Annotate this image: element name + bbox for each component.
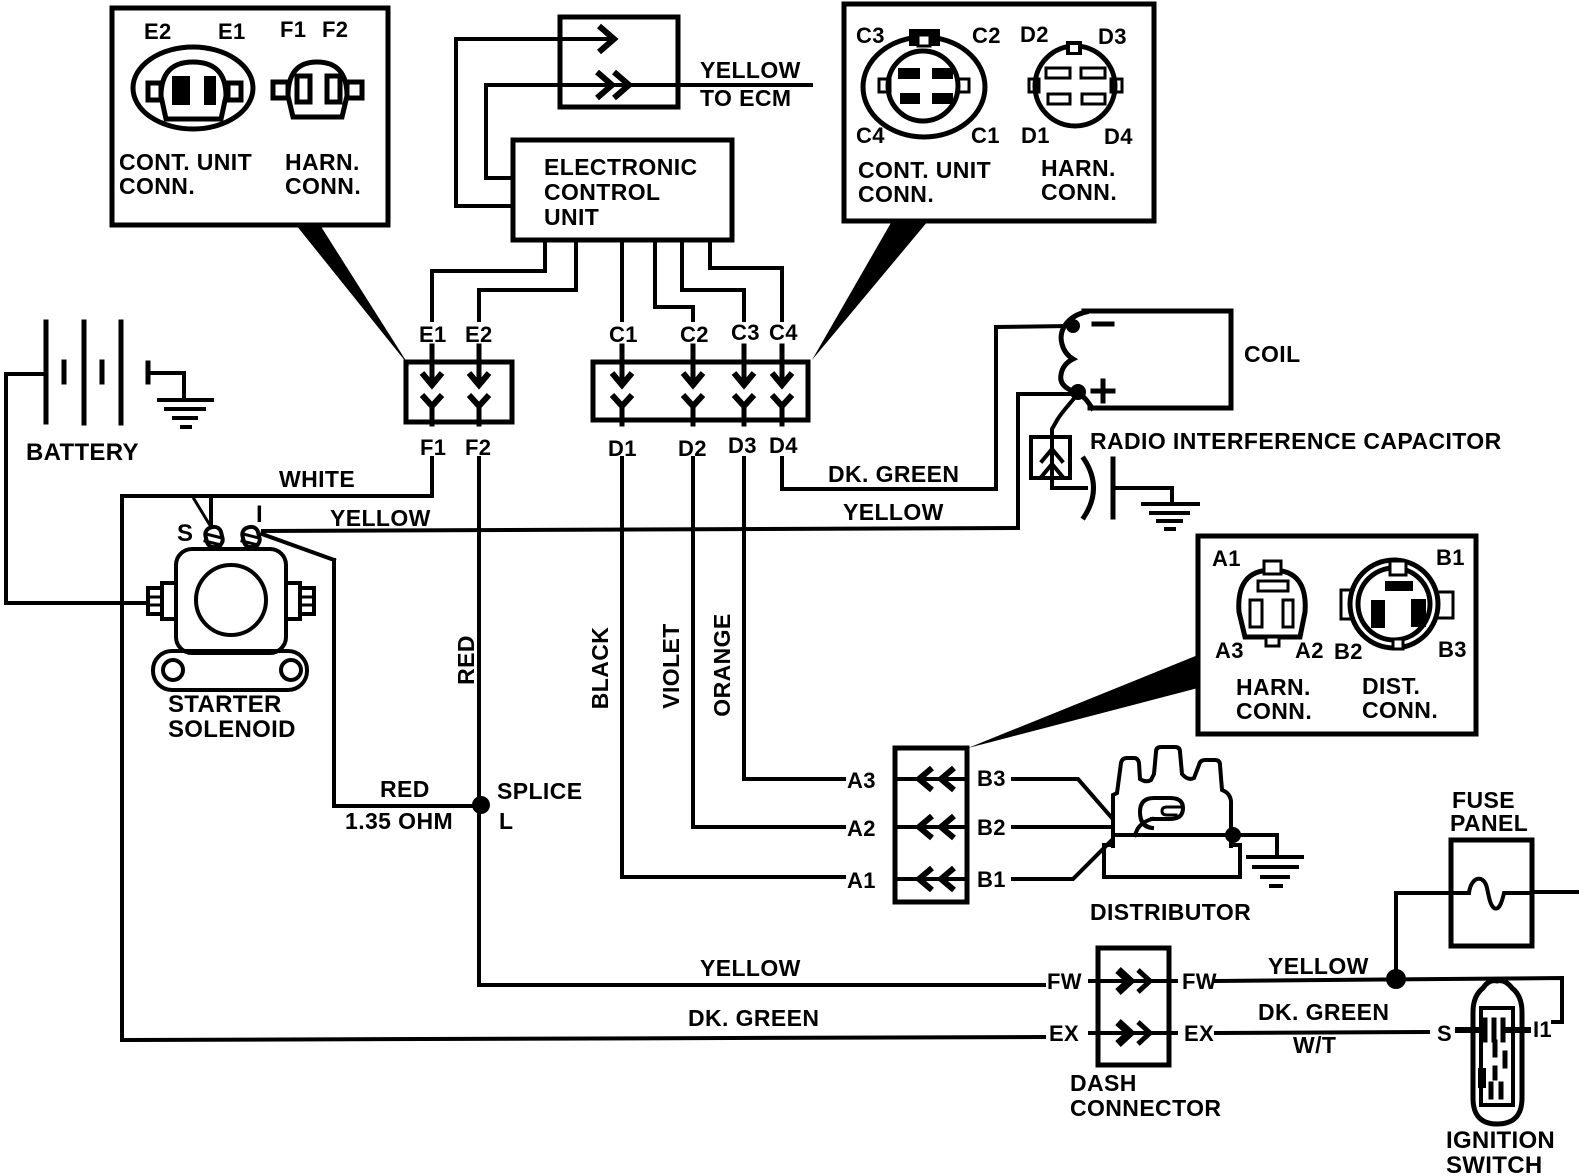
callout box: ECU C/D connector detail [844, 4, 1154, 221]
svg-text:EX: EX [1049, 1021, 1079, 1046]
FW pin arrows [1090, 970, 1176, 992]
dash connector [1070, 948, 1221, 1121]
wire: ECU pin to C4 [710, 240, 782, 320]
svg-text:YELLOW: YELLOW [330, 505, 431, 531]
svg-text:DK. GREEN: DK. GREEN [828, 461, 959, 487]
svg-text:DASH: DASH [1070, 1070, 1137, 1096]
svg-text:A2: A2 [1295, 638, 1324, 663]
svg-text:CONN.: CONN. [285, 173, 361, 199]
terminal S stud [204, 525, 224, 548]
ignition coil [1061, 311, 1301, 408]
cont. unit connector (C) symbol [863, 29, 985, 137]
svg-text:HARN.: HARN. [1236, 674, 1311, 700]
svg-text:F1: F1 [280, 17, 306, 42]
dist. connector (B) symbol [1341, 560, 1453, 649]
wire: battery positive to starter solenoid [6, 374, 146, 603]
pointer wedge from A/B callout to connector block [968, 655, 1198, 748]
svg-text:FW: FW [1047, 969, 1082, 994]
svg-text:TO ECM: TO ECM [700, 85, 791, 111]
wire: B1 to distributor [1013, 840, 1112, 879]
svg-text:DIST.: DIST. [1362, 673, 1420, 699]
ignition switch contacts [1458, 1020, 1528, 1040]
wire: ECM box to ECU (upper) [456, 39, 513, 206]
pointer wedge from E/F callout to connector block [296, 225, 410, 367]
harn. connector (D) symbol [1029, 41, 1122, 126]
svg-text:CONT. UNIT: CONT. UNIT [858, 157, 991, 183]
wire: DK. GREEN D4 to coil negative [782, 326, 1068, 489]
svg-text:PANEL: PANEL [1450, 810, 1528, 836]
wire: RED F2 down to splice and FW [479, 458, 1044, 985]
svg-text:CONN.: CONN. [858, 181, 934, 207]
svg-text:ORANGE: ORANGE [709, 613, 735, 716]
svg-text:SPLICE: SPLICE [497, 778, 582, 804]
wire: YELLOW FW to ignition switch I1 [1216, 978, 1562, 1022]
svg-text:YELLOW: YELLOW [700, 955, 801, 981]
svg-text:SOLENOID: SOLENOID [168, 716, 296, 743]
svg-text:EX: EX [1184, 1021, 1214, 1046]
C3-D3 pin arrow [734, 346, 754, 424]
svg-text:E1: E1 [218, 19, 246, 44]
pointer wedge from C/D callout to connector block [812, 221, 928, 360]
radio interference capacitor C1 [1031, 395, 1172, 517]
svg-text:D3: D3 [728, 433, 757, 458]
svg-text:RED: RED [453, 635, 479, 685]
svg-text:I1: I1 [1533, 1017, 1552, 1042]
svg-text:CONT. UNIT: CONT. UNIT [119, 149, 252, 175]
svg-text:S: S [177, 520, 193, 547]
wire: ECU pin to E2 [479, 240, 576, 320]
svg-text:A1: A1 [1212, 546, 1241, 571]
callout box: distributor A/B connector detail [1198, 536, 1476, 734]
distributor [1090, 747, 1277, 925]
ground (battery) [159, 400, 212, 427]
svg-text:CONN.: CONN. [1236, 698, 1312, 724]
svg-text:CONNECTOR: CONNECTOR [1070, 1095, 1221, 1121]
svg-text:HARN.: HARN. [285, 149, 360, 175]
battery BT1 [26, 322, 148, 466]
ignition switch body [1446, 981, 1555, 1176]
svg-text:1.35 OHM: 1.35 OHM [345, 808, 453, 834]
svg-text:D1: D1 [1021, 123, 1050, 148]
A/B connector block [895, 748, 967, 902]
svg-text:HARN.: HARN. [1041, 155, 1116, 181]
svg-text:VIOLET: VIOLET [658, 623, 684, 708]
svg-text:C2: C2 [972, 23, 1001, 48]
E1-F1 pin arrow [422, 346, 442, 424]
svg-text:A2: A2 [847, 816, 876, 841]
harn. connector (F) symbol [273, 62, 362, 117]
svg-text:D4: D4 [1104, 124, 1133, 149]
svg-text:DK. GREEN: DK. GREEN [1258, 999, 1389, 1025]
svg-text:COIL: COIL [1244, 341, 1301, 367]
electronic control unit U1 [513, 140, 732, 240]
A1-B1 pin arrows [897, 868, 965, 890]
svg-text:S: S [1437, 1021, 1452, 1046]
wire: DK. GREEN W/T EX to ignition switch S [1216, 1032, 1428, 1033]
svg-text:SWITCH: SWITCH [1446, 1152, 1542, 1176]
svg-text:A3: A3 [1215, 638, 1244, 663]
svg-text:DK. GREEN: DK. GREEN [688, 1005, 819, 1031]
svg-text:UNIT: UNIT [544, 204, 599, 230]
ground (capacitor) [1143, 504, 1198, 529]
svg-text:STARTER: STARTER [168, 691, 282, 718]
svg-text:RED: RED [380, 776, 430, 802]
wire: ECU pin to C1 [620, 240, 624, 320]
svg-text:B3: B3 [977, 766, 1006, 791]
svg-text:D3: D3 [1098, 24, 1127, 49]
svg-text:C2: C2 [680, 322, 709, 347]
svg-text:C1: C1 [609, 322, 638, 347]
wire: DK. GREEN long run to EX [122, 496, 1044, 1040]
label SPLICE L [497, 778, 582, 834]
splice L junction [472, 796, 490, 814]
svg-text:IGNITION: IGNITION [1446, 1127, 1555, 1154]
wire: ECU pin to C2 [655, 240, 693, 320]
ground (distributor) [1248, 857, 1302, 886]
svg-text:C3: C3 [856, 23, 885, 48]
svg-text:A3: A3 [847, 768, 876, 793]
starter solenoid [148, 549, 314, 743]
wire: VIOLET D2 to A2 [693, 458, 844, 827]
terminal I stud [241, 525, 261, 548]
svg-text:D4: D4 [769, 433, 798, 458]
svg-text:C4: C4 [769, 320, 798, 345]
wire: ECU pin to C3 [682, 240, 744, 320]
svg-text:BATTERY: BATTERY [26, 439, 139, 466]
wire: yellow riser to coil positive [1018, 394, 1070, 528]
label RED 1.35 OHM [345, 776, 453, 834]
svg-text:C3: C3 [731, 320, 760, 345]
wire: RED 1.35 OHM from I terminal to splice [262, 534, 472, 806]
svg-text:B1: B1 [977, 867, 1006, 892]
svg-text:CONN.: CONN. [1041, 179, 1117, 205]
A3-B3 pin arrows [897, 768, 965, 790]
svg-text:W/T: W/T [1293, 1032, 1336, 1058]
E2-F2 pin arrow [469, 346, 489, 424]
wire: B3 to distributor [1013, 779, 1112, 818]
svg-text:B3: B3 [1438, 637, 1467, 662]
wire: ECM box to ECU (lower) [486, 85, 513, 178]
svg-text:CONTROL: CONTROL [544, 179, 661, 205]
wire: junction to fuse panel [1396, 893, 1449, 979]
svg-text:E2: E2 [465, 322, 493, 347]
svg-text:C4: C4 [856, 123, 885, 148]
svg-text:FW: FW [1182, 969, 1217, 994]
C4-D4 pin arrow [772, 346, 792, 424]
svg-text:D2: D2 [1020, 22, 1049, 47]
harn. connector (A) symbol [1239, 561, 1305, 646]
cont. unit connector (E) symbol [133, 47, 253, 129]
svg-text:E1: E1 [419, 322, 447, 347]
svg-text:C1: C1 [971, 123, 1000, 148]
svg-text:CONN.: CONN. [1362, 697, 1438, 723]
svg-text:B1: B1 [1436, 545, 1465, 570]
svg-text:YELLOW: YELLOW [843, 499, 944, 525]
svg-text:ELECTRONIC: ELECTRONIC [544, 154, 698, 180]
wire: BLACK D1 to A1 [622, 458, 844, 877]
svg-text:F2: F2 [322, 17, 348, 42]
wire: ECU pin to E1 [432, 240, 545, 320]
svg-text:BLACK: BLACK [587, 627, 613, 710]
C2-D2 pin arrow [683, 346, 703, 424]
svg-text:WHITE: WHITE [279, 466, 355, 492]
svg-text:A1: A1 [847, 868, 876, 893]
svg-text:L: L [499, 808, 513, 834]
E/F connector block [406, 362, 512, 422]
svg-text:I: I [256, 501, 263, 528]
C/D connector block [593, 362, 808, 420]
svg-text:YELLOW: YELLOW [700, 57, 801, 83]
wire: battery negative to ground [150, 373, 184, 398]
svg-text:RADIO INTERFERENCE CAPACITOR: RADIO INTERFERENCE CAPACITOR [1090, 428, 1502, 454]
callout box: ECU E/F connector detail [112, 8, 388, 225]
C1-D1 pin arrow [612, 346, 632, 424]
EX pin arrows [1090, 1022, 1176, 1044]
svg-text:B2: B2 [977, 815, 1006, 840]
wire: YELLOW I terminal to coil + riser [263, 528, 1018, 531]
wire: WHITE F1 to S terminal [122, 458, 432, 527]
label DK. GREEN W/T [1258, 999, 1389, 1058]
wire: B2 to distributor [1013, 825, 1112, 829]
A2-B2 pin arrows [897, 816, 965, 838]
ECM arrow box [456, 17, 811, 111]
wire: ORANGE D3 to A3 [744, 458, 844, 779]
svg-text:YELLOW: YELLOW [1268, 953, 1369, 979]
junction (yellow / fuse panel) [1386, 969, 1406, 989]
svg-text:CONN.: CONN. [119, 173, 195, 199]
svg-text:DISTRIBUTOR: DISTRIBUTOR [1090, 899, 1251, 925]
svg-text:E2: E2 [144, 19, 172, 44]
svg-text:B2: B2 [1334, 639, 1363, 664]
fuse panel [1450, 787, 1577, 946]
